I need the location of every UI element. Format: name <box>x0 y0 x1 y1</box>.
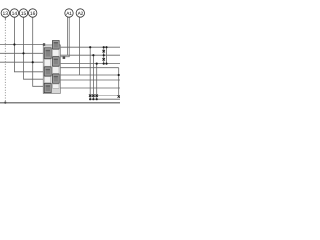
right edge drop wire from L4 <box>118 68 120 97</box>
bus line L6 from device to right edge <box>61 79 121 81</box>
junction dot stem15 x H2 <box>22 52 24 54</box>
svg-text:13: 13 <box>3 11 9 17</box>
switch cross on drop2 at M1 <box>92 94 95 97</box>
device screw terminal right column 3 <box>52 74 59 83</box>
junction dot drop3 on M2 <box>96 98 98 100</box>
terminal circle 14 <box>10 9 18 17</box>
wire stem of terminal 13 dashed <box>4 17 6 20</box>
svg-text:A1: A1 <box>66 11 72 17</box>
bus line L7 from device to right edge <box>61 87 121 89</box>
ladder wire xB between L1 and L3 <box>106 47 108 63</box>
lamp return line M2 <box>89 98 120 100</box>
bus line L1 from device to right edge <box>61 46 121 48</box>
ladder wire xA between L1 L2 L3 <box>103 47 105 63</box>
bus line L4 from device to right drop corner <box>61 67 119 69</box>
junction dot xB on L3 <box>105 63 107 65</box>
wire stem of terminal A1 inner elbow into device right side <box>61 17 70 57</box>
wire stem of terminal 14 with elbow into device <box>14 17 43 72</box>
terminal circle A1 <box>65 9 73 17</box>
device light terminal right column top <box>53 50 59 57</box>
svg-text:16: 16 <box>30 11 36 17</box>
junction dot xA on L1 <box>103 46 105 48</box>
device light terminal right column bottom <box>53 84 59 88</box>
drop wire from L2 at x 93.4 <box>92 55 94 99</box>
bottom neutral bus <box>0 102 120 104</box>
lamp cross at right drop end <box>118 95 121 98</box>
drop wire from L3 at x 96.7 <box>96 64 98 100</box>
device module body <box>43 45 60 94</box>
switch cross on xA between L1 and L2 <box>102 50 105 53</box>
junction dot xA on L3 <box>103 63 105 65</box>
junction dot L2 drop <box>92 54 94 56</box>
terminal circle A2 <box>76 9 84 17</box>
junction dot right drop on L5 <box>118 74 120 76</box>
wire stem of terminal A1 outer down to L2 <box>66 17 68 55</box>
device light terminal left column upper <box>44 59 50 66</box>
junction dot drop2 on M2 <box>92 98 94 100</box>
device screw terminal left column 3 <box>44 83 51 92</box>
junction dot stem14 x H1 <box>13 43 15 45</box>
terminal circle 13 <box>1 9 9 17</box>
bus line L2 from device to right edge <box>61 54 121 56</box>
svg-text:15: 15 <box>21 11 27 17</box>
switch cross on drop3 at M1 <box>95 94 98 97</box>
wire H2 left push-button line 2 <box>0 52 43 54</box>
svg-text:14: 14 <box>12 11 18 17</box>
device light terminal left column lower <box>44 77 50 83</box>
device screw terminal right column 1 <box>52 41 59 50</box>
switch cross on drop1 at M1 <box>89 94 92 97</box>
junction dot L3 drop <box>96 63 98 65</box>
junction dot xA on L2 <box>103 54 105 56</box>
terminal circle 16 <box>29 9 37 17</box>
svg-text:A2: A2 <box>78 11 84 17</box>
device screw terminal right column 2 <box>52 57 59 66</box>
device light terminal right column middle <box>53 67 59 74</box>
device input clamp H1 <box>43 43 45 46</box>
junction dot xB on L1 <box>105 46 107 48</box>
wire stem of terminal A2 down to L5 <box>79 17 81 75</box>
lamp return line M1 <box>89 95 119 97</box>
drop wire from L1 at x 90.2 <box>89 47 91 99</box>
wire stem of terminal 15 with elbow into device <box>24 17 44 79</box>
junction dot L1 drop <box>89 46 91 48</box>
device input clamp A1 right side <box>63 56 66 59</box>
bus line L5 from device to right drop <box>61 74 119 76</box>
junction dot drop1 on M2 <box>89 98 91 100</box>
switch cross on xA between L2 and L3 <box>102 58 105 61</box>
wire stem of terminal 16 with elbow into device <box>33 17 44 86</box>
device screw terminal left column 2 <box>44 67 51 76</box>
junction dot terminal 13 line on bottom bus <box>4 102 6 104</box>
junction dot stem16 x H3 <box>32 61 34 63</box>
wire H1 left push-button line 1 <box>0 44 43 46</box>
device screw terminal left column 1 <box>44 48 51 59</box>
wire H3 left push-button line 3 <box>0 61 43 63</box>
terminal circle 15 <box>19 9 27 17</box>
bus line L3 from device to right edge <box>61 63 121 65</box>
